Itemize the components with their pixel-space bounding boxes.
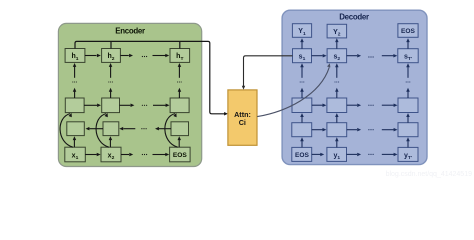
wire dots up to hT xyxy=(178,63,182,78)
node hT xyxy=(170,49,190,63)
wire h outputs collector to attention xyxy=(75,41,228,115)
forward layer box 2 xyxy=(102,98,120,113)
x row dots xyxy=(142,154,147,155)
svg-text:EOS: EOS xyxy=(401,28,416,35)
input EOS bottom xyxy=(292,147,312,161)
svg-text:EOS: EOS xyxy=(173,152,188,159)
column 2 vdots xyxy=(108,81,113,82)
input x1 xyxy=(65,147,86,162)
decoder layer2 box T xyxy=(398,98,418,113)
layer1 dots xyxy=(368,129,373,130)
output Y2 xyxy=(327,24,347,38)
node h1 xyxy=(65,49,85,63)
bottom row dots xyxy=(368,154,373,155)
wire forward2 up to dots xyxy=(109,88,113,98)
forward layer box 1 xyxy=(65,98,84,113)
encoder title xyxy=(115,27,145,36)
forward layer box T xyxy=(170,98,189,113)
wire input up to layer1 col 2 xyxy=(335,137,339,147)
wire dots to EOS xyxy=(153,153,170,156)
wire forward1 up to dots xyxy=(73,88,77,98)
input EOS xyxy=(170,147,191,162)
wire s2 to dots xyxy=(347,54,362,58)
decoder layer2 box 2 xyxy=(327,98,347,113)
decoder layer1 box 2 xyxy=(327,123,347,137)
decoder layer1 box 1 xyxy=(292,123,312,137)
wire forward 2 to dots xyxy=(120,104,135,108)
wire forward 1 to 2 xyxy=(84,104,101,108)
svg-text:Encoder: Encoder xyxy=(115,27,145,36)
wire dots up to h1 xyxy=(73,63,77,78)
column 1 vdots xyxy=(300,81,305,82)
node h2 xyxy=(102,49,121,63)
forward row dots xyxy=(142,105,147,106)
attention box Ci xyxy=(228,90,257,145)
svg-text:Ci: Ci xyxy=(239,118,246,127)
wire s1 to attention xyxy=(242,56,293,90)
state sT xyxy=(398,49,418,63)
wire dots to hT xyxy=(153,54,170,57)
column 1 vdots xyxy=(72,81,77,82)
column 2 vdots xyxy=(334,81,339,82)
svg-text:blog.csdn.net/qq_41424519: blog.csdn.net/qq_41424519 xyxy=(386,171,473,178)
wire state up to output col T xyxy=(406,38,410,49)
wire layer2 1 to 2 xyxy=(312,104,327,108)
backward layer box 2 xyxy=(103,122,119,136)
svg-text:Decoder: Decoder xyxy=(339,12,369,21)
wire input up to layer1 col T xyxy=(406,137,410,147)
wire y1 to dots xyxy=(347,153,362,157)
wire input up to layer1 col 1 xyxy=(300,137,304,147)
wire layer2 up to dots col T xyxy=(406,88,410,98)
wire dots to layer2 T xyxy=(382,104,398,108)
skip arc xT to forward box xyxy=(165,113,178,147)
decoder title xyxy=(339,12,369,21)
wire backward 2 to 1 xyxy=(86,127,104,130)
decoder box xyxy=(282,10,427,164)
wire xT up to backward box xyxy=(178,136,182,147)
wire layer1 up to layer2 col 2 xyxy=(335,113,339,123)
wire layer2 up to dots col 1 xyxy=(300,88,304,98)
decoder layer2 box 1 xyxy=(292,98,312,113)
s row dots xyxy=(368,56,373,57)
wire EOS to y1 xyxy=(312,153,325,157)
wire forwardT up to dots xyxy=(178,88,182,98)
wire dots up to state col 1 xyxy=(300,63,304,78)
wire x2 to dots xyxy=(121,153,133,156)
wire dots up to state col T xyxy=(406,63,410,78)
wire layer1 2 to dots xyxy=(347,128,361,131)
wire dots up to h2 xyxy=(109,63,113,78)
wire layer2 2 to dots xyxy=(347,104,361,108)
wire x1 up to backward box xyxy=(73,136,77,147)
wire x1 to x2 xyxy=(85,153,100,156)
tick hT to collector xyxy=(179,41,181,48)
wire layer1 1 to 2 xyxy=(312,128,327,131)
wire layer2 up to dots col 2 xyxy=(335,88,339,98)
decoder layer1 box T xyxy=(398,123,418,137)
encoder box xyxy=(58,23,201,166)
state s2 xyxy=(327,49,347,63)
tick h2 to collector xyxy=(110,41,112,48)
watermark xyxy=(386,171,473,178)
wire dots up to state col 2 xyxy=(335,63,339,78)
wire state up to output col 2 xyxy=(335,38,339,49)
backward layer box T xyxy=(171,122,189,136)
svg-text:EOS: EOS xyxy=(295,152,310,159)
wire dots to yT xyxy=(382,153,398,157)
wire layer1 up to layer2 col 1 xyxy=(300,113,304,123)
skip arc x2 to forward box xyxy=(96,113,109,147)
wire attention context to s2 xyxy=(257,63,330,116)
state s1 xyxy=(293,49,312,63)
layer2 dots xyxy=(368,105,373,106)
backward row dots xyxy=(141,128,146,129)
input x2 xyxy=(101,147,121,162)
output EOS top xyxy=(398,24,418,38)
wire dots to forward T xyxy=(153,104,170,108)
wire backward T to dots xyxy=(155,127,171,130)
h row dots xyxy=(142,56,147,57)
column T vdots xyxy=(177,81,182,82)
wire x2 up to backward box xyxy=(109,136,113,147)
wire dots to sT xyxy=(382,54,398,58)
skip arc x1 to forward box xyxy=(60,113,73,147)
wire state up to output col 1 xyxy=(300,38,304,49)
backward layer box 1 xyxy=(67,122,85,136)
wire s1 to s2 xyxy=(312,54,327,58)
input yT xyxy=(398,147,418,161)
wire h2 to dots xyxy=(120,54,133,57)
wire dots to layer1 T xyxy=(382,128,398,131)
output Y1 xyxy=(292,24,311,38)
wire h1 to h2 xyxy=(85,54,101,57)
wire backward dots to 2 xyxy=(119,127,135,130)
input y1 xyxy=(327,147,347,161)
wire layer1 up to layer2 col T xyxy=(406,113,410,123)
column T vdots xyxy=(406,81,411,82)
